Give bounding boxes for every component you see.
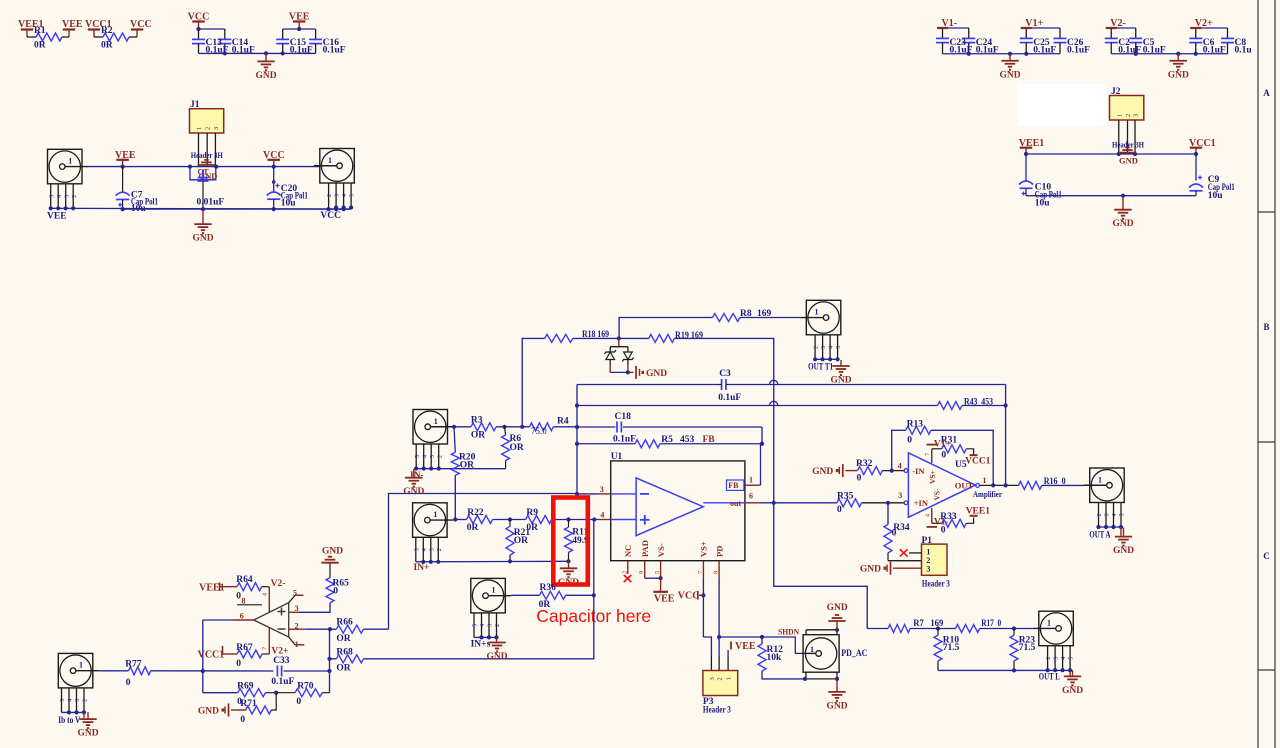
- svg-text:3: 3: [335, 194, 341, 197]
- svg-text:4: 4: [829, 346, 835, 349]
- svg-text:5: 5: [293, 589, 297, 598]
- svg-text:2: 2: [717, 677, 724, 680]
- svg-text:0.1uF: 0.1uF: [271, 677, 294, 687]
- svg-text:R17 0: R17 0: [981, 619, 1001, 629]
- svg-text:5: 5: [49, 195, 55, 198]
- svg-text:0: 0: [837, 505, 842, 515]
- svg-text:VCC: VCC: [188, 12, 210, 23]
- svg-text:GND: GND: [1119, 156, 1138, 166]
- svg-text:0.01uF: 0.01uF: [197, 198, 225, 208]
- svg-text:0.1u: 0.1u: [1235, 46, 1253, 56]
- svg-text:6: 6: [240, 612, 244, 621]
- svg-text:2: 2: [295, 621, 299, 630]
- svg-text:3: 3: [429, 548, 435, 551]
- svg-text:J1: J1: [190, 100, 200, 110]
- svg-text:2: 2: [814, 346, 820, 349]
- svg-text:0R: 0R: [467, 523, 479, 533]
- svg-text:GND: GND: [646, 369, 667, 379]
- svg-text:0: 0: [941, 451, 946, 461]
- svg-text:3: 3: [821, 346, 827, 349]
- svg-text:Header 3: Header 3: [703, 705, 731, 715]
- svg-text:VEE: VEE: [735, 641, 756, 652]
- svg-text:2: 2: [327, 194, 333, 197]
- svg-text:1: 1: [295, 640, 299, 649]
- svg-text:Amplifier: Amplifier: [973, 489, 1002, 499]
- svg-text:Header 3H: Header 3H: [191, 151, 224, 160]
- svg-text:NC: NC: [623, 545, 633, 557]
- svg-text:PD_AC: PD_AC: [841, 649, 867, 659]
- svg-text:2: 2: [1046, 657, 1052, 660]
- svg-text:SHDN: SHDN: [778, 627, 800, 637]
- svg-text:0.1uF: 0.1uF: [290, 46, 313, 56]
- svg-text:R43 453: R43 453: [964, 398, 993, 408]
- svg-text:3: 3: [64, 195, 70, 198]
- svg-text:3: 3: [295, 604, 299, 613]
- svg-text:OUT T1: OUT T1: [808, 363, 833, 373]
- svg-text:3: 3: [430, 455, 436, 458]
- svg-text:0R: 0R: [101, 41, 113, 51]
- svg-text:VEE: VEE: [47, 212, 67, 222]
- svg-text:V1-: V1-: [934, 517, 949, 527]
- svg-text:+IN: +IN: [914, 498, 929, 508]
- svg-text:IN-: IN-: [410, 471, 424, 481]
- svg-text:VCC: VCC: [678, 590, 700, 601]
- svg-text:V1-: V1-: [942, 18, 958, 29]
- svg-text:4: 4: [480, 624, 486, 627]
- svg-text:2: 2: [437, 455, 443, 458]
- svg-text:1: 1: [749, 475, 753, 484]
- svg-text:3: 3: [600, 485, 604, 494]
- svg-text:VCC1: VCC1: [965, 456, 991, 466]
- svg-text:R4: R4: [557, 417, 569, 427]
- svg-text:8: 8: [242, 597, 246, 606]
- svg-text:GND: GND: [812, 467, 833, 477]
- svg-text:C3: C3: [719, 369, 731, 379]
- svg-text:OUT: OUT: [955, 480, 974, 490]
- svg-text:VS+: VS+: [699, 541, 709, 557]
- svg-text:3: 3: [926, 565, 930, 574]
- svg-text:GND: GND: [827, 603, 848, 613]
- svg-text:2: 2: [1125, 114, 1132, 117]
- svg-text:1: 1: [196, 127, 203, 130]
- svg-text:R32: R32: [856, 459, 873, 469]
- svg-text:R68: R68: [336, 647, 353, 657]
- svg-text:R64: R64: [236, 575, 253, 585]
- svg-text:1: 1: [810, 645, 814, 654]
- svg-text:0.1uF: 0.1uF: [323, 46, 346, 56]
- svg-text:PAD: PAD: [640, 540, 650, 557]
- svg-text:V2-: V2-: [1110, 18, 1126, 29]
- svg-text:VEE1: VEE1: [1019, 138, 1045, 149]
- svg-text:U1: U1: [611, 452, 623, 462]
- svg-text:4: 4: [57, 195, 63, 198]
- svg-text:P1: P1: [922, 536, 933, 546]
- svg-text:VEE1: VEE1: [199, 583, 225, 594]
- svg-text:R66: R66: [336, 618, 353, 628]
- svg-text:GND: GND: [403, 487, 424, 497]
- svg-text:FB: FB: [703, 435, 716, 445]
- svg-text:0.1uF: 0.1uF: [1203, 46, 1226, 56]
- svg-text:OR: OR: [510, 443, 524, 453]
- svg-text:4: 4: [926, 514, 932, 517]
- svg-text:GND: GND: [1112, 219, 1133, 229]
- svg-text:0R: 0R: [34, 41, 46, 51]
- svg-text:1: 1: [433, 510, 437, 519]
- svg-text:1: 1: [434, 417, 438, 426]
- svg-text:75.0: 75.0: [531, 426, 547, 436]
- svg-text:0: 0: [907, 436, 912, 446]
- svg-text:4: 4: [68, 699, 74, 702]
- svg-text:OR: OR: [336, 634, 350, 644]
- svg-text:0: 0: [126, 678, 131, 688]
- svg-text:C33: C33: [273, 656, 290, 666]
- svg-text:5: 5: [350, 194, 356, 197]
- svg-text:3: 3: [488, 624, 494, 627]
- svg-text:1: 1: [492, 586, 496, 595]
- svg-text:4: 4: [422, 548, 428, 551]
- svg-text:VCC1: VCC1: [198, 650, 225, 661]
- svg-text:OUT A: OUT A: [1089, 531, 1110, 541]
- svg-text:R2: R2: [101, 26, 113, 36]
- svg-text:OUT L: OUT L: [1039, 673, 1060, 683]
- svg-text:C18: C18: [615, 412, 632, 422]
- svg-text:-IN: -IN: [912, 466, 925, 476]
- svg-text:5: 5: [60, 699, 66, 702]
- svg-text:2: 2: [1097, 514, 1103, 517]
- svg-text:V2-: V2-: [271, 579, 286, 589]
- svg-text:10u: 10u: [281, 198, 297, 208]
- svg-text:VCC: VCC: [320, 211, 341, 221]
- svg-text:R13: R13: [907, 420, 924, 430]
- svg-text:GND: GND: [999, 70, 1020, 80]
- svg-text:71.5: 71.5: [1019, 643, 1036, 653]
- svg-text:7: 7: [263, 647, 269, 650]
- svg-text:2: 2: [205, 127, 212, 130]
- svg-text:1: 1: [815, 308, 819, 317]
- svg-text:GND: GND: [77, 729, 98, 739]
- svg-text:R18 169: R18 169: [582, 330, 609, 340]
- svg-text:GND: GND: [255, 71, 276, 81]
- svg-text:2: 2: [83, 699, 89, 702]
- svg-text:VS-: VS-: [933, 488, 942, 501]
- svg-text:IN+: IN+: [414, 563, 430, 573]
- svg-text:V2+: V2+: [1195, 18, 1213, 29]
- svg-text:3: 3: [75, 699, 81, 702]
- svg-text:GND: GND: [322, 547, 343, 557]
- svg-text:0.1uF: 0.1uF: [1033, 46, 1056, 56]
- svg-text:0: 0: [296, 697, 301, 707]
- svg-text:R1: R1: [34, 26, 46, 36]
- svg-text:B: B: [1263, 322, 1269, 332]
- svg-text:R9: R9: [526, 508, 538, 518]
- svg-text:IN+s: IN+s: [471, 639, 491, 649]
- svg-text:1: 1: [726, 677, 733, 680]
- svg-text:R67: R67: [236, 643, 253, 653]
- svg-text:4: 4: [1112, 514, 1118, 517]
- svg-text:5: 5: [473, 624, 479, 627]
- svg-text:R5 453: R5 453: [661, 435, 694, 445]
- svg-text:R22: R22: [467, 508, 484, 518]
- svg-text:1: 1: [1098, 475, 1102, 484]
- svg-text:OR: OR: [471, 430, 485, 440]
- svg-text:0: 0: [333, 587, 338, 597]
- svg-text:FB: FB: [728, 481, 739, 490]
- svg-text:Header 3: Header 3: [922, 579, 950, 589]
- svg-text:3: 3: [1133, 114, 1140, 117]
- svg-text:OR: OR: [336, 664, 350, 674]
- svg-text:7: 7: [926, 453, 932, 456]
- svg-text:GND: GND: [198, 707, 219, 717]
- svg-text:GND: GND: [860, 565, 881, 575]
- svg-text:VCC: VCC: [263, 150, 285, 161]
- svg-text:GND: GND: [1062, 686, 1083, 696]
- svg-text:6: 6: [749, 492, 753, 501]
- svg-text:3: 3: [898, 491, 902, 500]
- svg-text:4: 4: [263, 593, 269, 596]
- svg-text:GND: GND: [826, 701, 847, 711]
- svg-text:10u: 10u: [1035, 199, 1051, 209]
- svg-text:2: 2: [495, 624, 501, 627]
- svg-text:OR: OR: [460, 461, 474, 471]
- svg-text:R71: R71: [240, 699, 257, 709]
- svg-text:2: 2: [72, 195, 78, 198]
- svg-text:5: 5: [414, 548, 420, 551]
- svg-text:4: 4: [600, 511, 604, 520]
- svg-text:3: 3: [709, 677, 716, 680]
- svg-text:2: 2: [437, 548, 443, 551]
- svg-text:GND: GND: [1113, 546, 1134, 556]
- svg-text:out: out: [730, 499, 741, 508]
- svg-text:GND: GND: [1168, 70, 1189, 80]
- svg-text:R3: R3: [471, 416, 483, 426]
- svg-text:0: 0: [857, 474, 862, 484]
- svg-text:1: 1: [1047, 618, 1051, 627]
- svg-text:0: 0: [236, 659, 241, 669]
- svg-text:GND: GND: [199, 171, 218, 181]
- svg-text:VCC: VCC: [130, 19, 152, 30]
- svg-text:VEE: VEE: [289, 12, 310, 23]
- svg-text:VEE: VEE: [62, 19, 83, 30]
- svg-text:0: 0: [240, 715, 245, 725]
- svg-text:5: 5: [1069, 657, 1075, 660]
- svg-text:4: 4: [1061, 657, 1067, 660]
- svg-text:3: 3: [1054, 657, 1060, 660]
- svg-text:R36: R36: [540, 583, 557, 593]
- svg-text:10u: 10u: [1208, 191, 1224, 201]
- svg-text:0.1uF: 0.1uF: [613, 435, 636, 445]
- svg-text:V1+: V1+: [1025, 18, 1043, 29]
- svg-text:VS-: VS-: [656, 543, 666, 557]
- svg-text:0.1uF: 0.1uF: [1067, 46, 1090, 56]
- svg-text:0.1uF: 0.1uF: [718, 393, 741, 403]
- svg-text:J2: J2: [1111, 87, 1121, 97]
- svg-text:GND: GND: [486, 652, 507, 662]
- svg-text:A: A: [1263, 88, 1270, 98]
- svg-text:3: 3: [213, 127, 220, 130]
- svg-text:4: 4: [898, 461, 902, 470]
- svg-text:5: 5: [415, 455, 421, 458]
- svg-text:VS+: VS+: [928, 470, 937, 484]
- svg-text:3: 3: [1105, 514, 1111, 517]
- svg-text:71.5: 71.5: [943, 643, 960, 653]
- svg-text:Ib to V: Ib to V: [58, 716, 80, 726]
- svg-text:1: 1: [983, 476, 987, 485]
- svg-text:4: 4: [342, 194, 348, 197]
- svg-text:GND: GND: [192, 234, 213, 244]
- svg-text:VEE: VEE: [654, 594, 675, 605]
- svg-text:R77: R77: [125, 660, 142, 670]
- svg-text:R69: R69: [237, 682, 254, 692]
- svg-text:R19 169: R19 169: [675, 331, 703, 341]
- svg-text:R70: R70: [297, 682, 314, 692]
- svg-text:1: 1: [328, 156, 332, 165]
- svg-text:1: 1: [79, 661, 83, 670]
- svg-text:PD: PD: [714, 546, 724, 557]
- svg-text:5: 5: [1120, 514, 1126, 517]
- svg-text:10k: 10k: [767, 653, 783, 663]
- svg-text:1: 1: [68, 157, 72, 166]
- svg-text:5: 5: [836, 346, 842, 349]
- svg-text:1: 1: [1116, 114, 1123, 117]
- svg-text:C: C: [1263, 551, 1270, 561]
- svg-text:4: 4: [422, 455, 428, 458]
- svg-text:0: 0: [892, 529, 897, 539]
- svg-text:OR: OR: [514, 536, 528, 546]
- svg-text:VCC1: VCC1: [1189, 138, 1216, 149]
- svg-text:0R: 0R: [539, 600, 551, 610]
- svg-text:VEE: VEE: [115, 150, 136, 161]
- svg-text:VEE1: VEE1: [966, 507, 991, 517]
- svg-text:R35: R35: [837, 492, 854, 502]
